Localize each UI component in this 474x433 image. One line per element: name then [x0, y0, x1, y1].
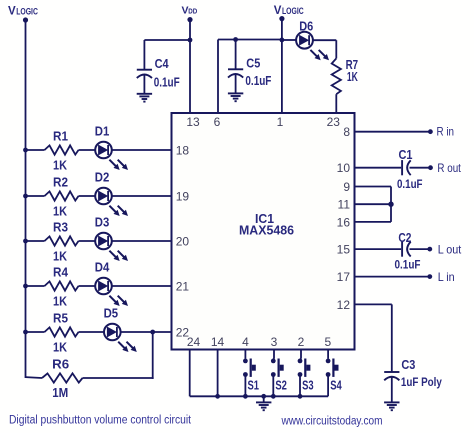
svg-text:S3: S3	[302, 379, 314, 393]
wire pin riser to switch S2	[273, 350, 275, 359]
svg-text:1K: 1K	[347, 70, 358, 84]
wire switch S1 to bus	[244, 375, 246, 397]
node L out terminal dot	[427, 247, 432, 252]
wire row 3 LED to pin 20	[112, 240, 172, 242]
capacitor C3	[384, 371, 399, 373]
pushbutton switch S1	[243, 359, 248, 364]
wire bus to ground	[263, 396, 265, 402]
wire pin 8 to R in	[355, 131, 431, 133]
wire pin riser to switch S3	[300, 350, 302, 359]
wire switch S3 to bus	[299, 375, 301, 397]
node VLOGIC left terminal dot	[23, 17, 28, 22]
svg-text:19: 19	[176, 189, 190, 203]
wire C3 to ground	[391, 378, 393, 403]
wire switch S2 to bus	[272, 375, 274, 397]
svg-text:12: 12	[337, 298, 351, 312]
wire switch S4 to bus	[327, 375, 329, 397]
wire row 2 rail to resistor	[26, 195, 45, 197]
svg-text:8: 8	[343, 125, 350, 139]
svg-text:21: 21	[176, 279, 190, 293]
wire C1 to R out	[410, 167, 431, 169]
svg-text:18: 18	[176, 143, 190, 157]
node junction dot on VLOGIC rail row 1	[23, 148, 28, 153]
svg-text:5: 5	[324, 335, 331, 349]
wire top horizontal pin6 to VLOGIC node	[218, 39, 282, 41]
svg-text:1K: 1K	[53, 158, 67, 172]
wire R6 to riser	[83, 377, 154, 379]
wire pin 24 riser down	[189, 350, 191, 397]
svg-text:13: 13	[186, 115, 200, 129]
svg-text:1K: 1K	[53, 340, 67, 354]
svg-text:0.1uF: 0.1uF	[397, 177, 423, 191]
svg-text:LOGIC: LOGIC	[16, 6, 38, 16]
wire R7 to pin 23	[335, 94, 337, 113]
wire pin 15 to C2	[355, 248, 402, 250]
svg-text:C2: C2	[398, 231, 411, 245]
node VDD terminal dot	[187, 17, 192, 22]
wire row 3 resistor to LED	[79, 240, 96, 242]
node R out terminal dot	[428, 165, 433, 170]
wire C4 to ground	[143, 76, 145, 94]
wire row 2 resistor to LED	[79, 195, 96, 197]
svg-text:LOGIC: LOGIC	[282, 6, 304, 16]
wire pin 10 to C1	[355, 167, 402, 169]
resistor R5	[45, 327, 79, 336]
node junction dot C5 tap	[233, 37, 238, 42]
wire row 5 LED to junction	[121, 331, 153, 333]
resistor R3	[45, 236, 79, 245]
svg-text:0.1uF: 0.1uF	[395, 257, 421, 271]
capacitor C1	[401, 160, 403, 175]
svg-text:D3: D3	[95, 215, 110, 229]
node junction dot on VLOGIC rail row 3	[23, 239, 28, 244]
wire D6 to R7 corner	[313, 39, 336, 41]
svg-text:14: 14	[211, 335, 225, 349]
wire VLOGIC right vertical to pin 1	[281, 19, 283, 113]
svg-text:1uF Poly: 1uF Poly	[401, 375, 442, 389]
node junction dot pin14/bus	[215, 394, 220, 399]
resistor R6 1M	[26, 376, 43, 379]
node junction dot ground tap on bus	[261, 394, 266, 399]
svg-text:4: 4	[242, 335, 249, 349]
svg-text:R in: R in	[437, 125, 455, 139]
wire row 5 junction to pin 22	[153, 331, 172, 333]
resistor R7 1K	[332, 58, 341, 94]
svg-text:C4: C4	[155, 57, 169, 71]
node junction dot VLOGIC / D6	[280, 38, 285, 43]
svg-text:S4: S4	[330, 379, 342, 393]
wire riser R6 up to row 5	[152, 332, 154, 379]
svg-text:D2: D2	[95, 170, 110, 184]
svg-text:24: 24	[187, 335, 201, 349]
svg-text:1K: 1K	[53, 249, 67, 263]
svg-text:0.1uF: 0.1uF	[154, 75, 180, 89]
wire pin 6 riser	[217, 40, 219, 114]
wire row 4 resistor to LED	[79, 285, 96, 287]
svg-text:6: 6	[214, 115, 221, 129]
svg-text:2: 2	[298, 335, 305, 349]
ground below C3	[384, 401, 399, 403]
wire row 5 rail to resistor	[26, 331, 45, 333]
wire row 4 LED to pin 21	[112, 285, 172, 287]
svg-text:C3: C3	[401, 358, 415, 372]
svg-text:S2: S2	[275, 379, 287, 393]
svg-text:www.circuitstoday.com: www.circuitstoday.com	[281, 415, 383, 427]
wire pin riser to switch S4	[327, 350, 329, 359]
pushbutton switch S4	[326, 359, 331, 364]
op-amp IC U1 MAX5486 body	[172, 113, 355, 350]
wire C4 branch horizontal	[144, 39, 190, 41]
node L in terminal dot	[427, 274, 432, 279]
svg-text:L out: L out	[438, 242, 462, 256]
node junction dot pin 11 loop	[388, 202, 393, 207]
svg-text:S1: S1	[248, 379, 260, 393]
svg-text:9: 9	[343, 180, 350, 194]
node junction dot S2/bus	[271, 394, 276, 399]
node junction dot S3/bus	[298, 394, 303, 399]
svg-text:R4: R4	[53, 265, 68, 279]
wire pin 12 horizontal	[355, 303, 392, 305]
svg-text:C5: C5	[246, 56, 260, 70]
wire row 1 LED to pin 18	[112, 149, 172, 151]
svg-text:R6: R6	[52, 357, 69, 371]
wire pin 9 stub	[355, 186, 392, 188]
node junction dot on VLOGIC rail row 2	[23, 194, 28, 199]
svg-text:D5: D5	[104, 306, 119, 320]
wire VLOGIC left rail vertical	[25, 20, 27, 378]
wire pin 16 stub	[355, 221, 392, 223]
svg-text:L in: L in	[438, 270, 455, 284]
wire row 2 LED to pin 19	[112, 195, 172, 197]
svg-text:11: 11	[338, 198, 351, 212]
node R in terminal dot	[428, 129, 433, 134]
wire 9-11-16 loop vertical	[390, 187, 392, 222]
wire row 1 rail to resistor	[26, 149, 45, 151]
svg-text:D4: D4	[95, 260, 110, 274]
svg-text:Digital pushbutton volume cont: Digital pushbutton volume control circui…	[9, 414, 192, 426]
node junction dot VDD / C4	[188, 38, 193, 43]
svg-text:16: 16	[337, 215, 351, 229]
svg-text:R5: R5	[53, 311, 68, 325]
svg-text:V: V	[8, 6, 16, 18]
capacitor C4	[143, 40, 145, 70]
wire pin 11 stub	[355, 203, 392, 205]
node junction dot row5/R6	[150, 330, 155, 335]
wire C5 to ground	[235, 75, 237, 93]
node junction dot S1/bus	[243, 394, 248, 399]
wire C2 to L out	[410, 248, 430, 250]
svg-text:1K: 1K	[53, 204, 67, 218]
svg-text:1K: 1K	[53, 294, 67, 308]
svg-text:10: 10	[337, 161, 351, 175]
wire pin riser to switch S1	[244, 350, 246, 359]
svg-text:15: 15	[337, 243, 351, 257]
pushbutton switch S2	[271, 359, 276, 364]
node junction dot on VLOGIC rail row 4	[23, 284, 28, 289]
node junction dot on VLOGIC rail row 5	[23, 330, 28, 335]
ground below bus	[256, 401, 271, 403]
svg-text:R1: R1	[53, 129, 68, 143]
svg-text:C1: C1	[399, 148, 413, 162]
ground below C5	[228, 92, 243, 94]
wire row 3 rail to resistor	[26, 240, 45, 242]
resistor R4	[45, 281, 79, 290]
svg-text:DD: DD	[188, 7, 197, 16]
svg-text:MAX5486: MAX5486	[239, 223, 294, 237]
wire VDD vertical to pin 13	[189, 20, 191, 113]
svg-text:D1: D1	[95, 124, 110, 138]
capacitor C5	[235, 40, 237, 70]
wire row 5 resistor to LED	[79, 331, 105, 333]
svg-text:1: 1	[277, 115, 284, 129]
svg-text:20: 20	[176, 234, 190, 248]
svg-text:V: V	[274, 5, 282, 17]
wire row 1 resistor to LED	[79, 149, 96, 151]
svg-text:3: 3	[271, 335, 278, 349]
svg-text:23: 23	[327, 115, 341, 129]
svg-text:R out: R out	[437, 161, 461, 175]
wire VLOGIC node to LED D6	[282, 39, 296, 41]
resistor R1	[45, 145, 79, 154]
ground below C4	[137, 93, 152, 95]
wire pin 17 to L in	[355, 276, 430, 278]
svg-text:R3: R3	[53, 220, 68, 234]
svg-text:17: 17	[337, 270, 351, 284]
svg-text:R2: R2	[53, 175, 68, 189]
wire ground bus	[190, 395, 328, 397]
wire row 4 rail to resistor	[26, 285, 45, 287]
wire pin 12 down to C3	[391, 304, 393, 372]
wire pin 14 riser down	[217, 350, 219, 397]
resistor R2	[45, 191, 79, 200]
pushbutton switch S3	[298, 359, 303, 364]
svg-text:0.1uF: 0.1uF	[245, 74, 271, 88]
capacitor C2	[401, 242, 403, 257]
svg-text:1M: 1M	[52, 386, 68, 400]
node VLOGIC right terminal dot	[279, 16, 284, 21]
